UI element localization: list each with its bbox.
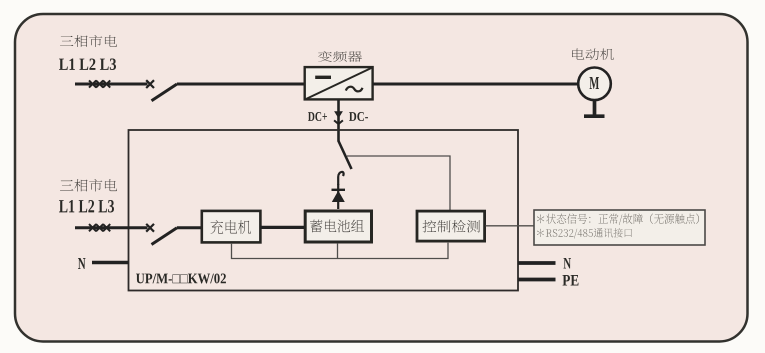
switch blade (bottom mains)	[152, 228, 178, 245]
note box (status signals)	[534, 210, 705, 245]
three-phase marks (bottom)	[89, 224, 110, 231]
label: 电动机 (motor)	[572, 48, 614, 59]
label: L1 L2 L3 (bottom)	[59, 200, 114, 212]
label: three-phase mains (top) 三相市电	[60, 35, 117, 47]
label: N (left)	[78, 258, 86, 269]
switch blade (top mains)	[152, 84, 178, 101]
battery box 蓄电池组	[305, 211, 371, 242]
breaker contact cross (top)	[146, 80, 154, 88]
ground: motor earth	[584, 100, 605, 117]
wire: switch to charger	[177, 226, 202, 229]
diode (battery to DC bus)	[332, 190, 346, 202]
inverter DC symbol (minus bar)	[315, 76, 331, 79]
wire: PE output	[518, 278, 556, 282]
breaker contact cross (bottom)	[146, 224, 154, 232]
switch blade (DC)	[339, 141, 352, 169]
wire: DC link vertical	[337, 100, 340, 142]
model label UP/M-KW/02	[136, 274, 226, 284]
label: DC-	[349, 112, 368, 121]
wire: hook to battery	[337, 184, 339, 209]
DC plug-socket connector	[334, 111, 343, 124]
wire: N input	[92, 261, 129, 265]
control box 控制检测	[417, 211, 485, 241]
sense wire: DC switch to control	[347, 156, 450, 210]
inverter diagonal divider	[306, 68, 371, 99]
note line 2: RS232/485通讯接口	[537, 228, 632, 239]
label: 蓄电池组 (battery pack)	[310, 219, 364, 232]
UPS cabinet box	[129, 130, 519, 291]
label: 充电机 (charger)	[210, 220, 251, 234]
motor M circle 电动机	[578, 68, 611, 101]
label: three-phase mains (bottom) 三相市电	[60, 179, 117, 192]
control bus: charger/battery/control bottom	[232, 243, 449, 259]
label: PE	[562, 275, 578, 286]
label: N (right)	[563, 258, 571, 269]
three-phase marks (top)	[89, 80, 110, 87]
inverter AC symbol (tilde)	[346, 87, 363, 92]
label: 变频器 (inverter)	[318, 51, 362, 62]
label: L1 L2 L3 (top)	[59, 58, 116, 70]
inverter box 变频器	[305, 67, 373, 99]
label: DC+	[308, 112, 327, 121]
wire: top AC input	[75, 83, 148, 86]
wire: inverter to motor	[373, 83, 579, 86]
wire: charger to battery	[260, 226, 306, 229]
charger box 充电机	[202, 211, 261, 243]
note line 1: 状态信号 正常/故障	[537, 214, 699, 226]
label: 控制检测 (control/detection)	[422, 220, 480, 233]
switch contact hook (DC)	[338, 172, 343, 185]
wire: N output	[518, 261, 556, 265]
wire: control to note box	[486, 225, 535, 227]
motor letter M	[590, 77, 600, 89]
wire: switch to inverter	[177, 83, 305, 86]
wire: bottom AC input	[75, 226, 148, 229]
